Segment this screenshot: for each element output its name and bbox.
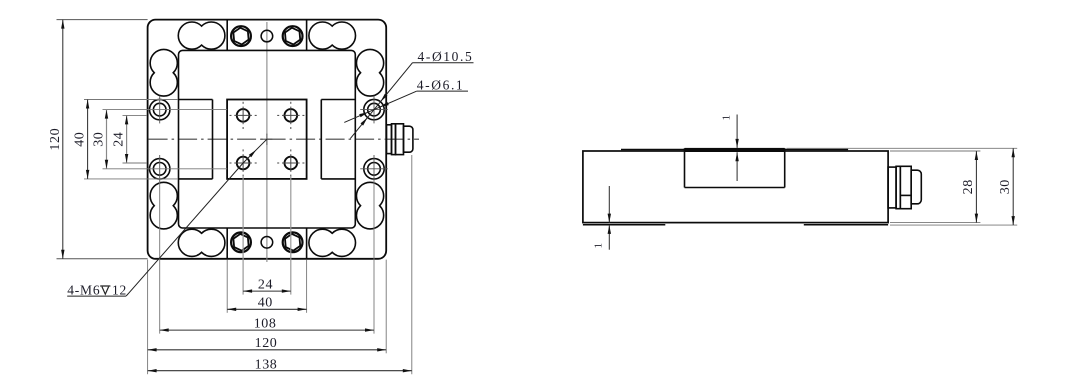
- M6 tapped hole bottom-right on platform: [277, 149, 304, 176]
- hex bolt top-right: [283, 26, 303, 46]
- pocket step edge lower-left: [179, 178, 213, 180]
- extension line 120 dim right: [385, 260, 387, 354]
- leader label 4-M6 depth 12: [67, 139, 267, 297]
- side view bottom pad right: [804, 224, 888, 226]
- pocket frame outline: [179, 50, 356, 228]
- extension line 24 dim left upper: [123, 114, 148, 116]
- peanut cutout left-bottom vertical: [150, 182, 177, 229]
- peanut cutout bottom-left: [178, 229, 225, 256]
- extension line 28 dim top: [890, 150, 980, 152]
- counterbored hole bottom-left: [150, 155, 170, 183]
- extension line 40 dim lower: [84, 178, 178, 180]
- svg-text:30: 30: [92, 132, 107, 147]
- side view boss left edge: [684, 148, 686, 187]
- peanut cutout right-top vertical: [356, 49, 383, 96]
- svg-text:4-M6: 4-M6: [67, 282, 100, 297]
- svg-text:24: 24: [112, 132, 127, 147]
- center cross mark: [261, 134, 272, 145]
- dimension 40 bottom: [227, 295, 306, 311]
- M6 tapped hole top-right on platform: [277, 102, 304, 129]
- slot edge right: [320, 100, 322, 179]
- bottom strip divider left: [226, 228, 228, 259]
- small hole bottom-center: [261, 237, 273, 249]
- extension line plate bottom-left: [57, 258, 148, 260]
- extension line 30 dim upper: [103, 109, 228, 111]
- dimension 40 left: [73, 100, 90, 179]
- dimension 30 left: [92, 110, 109, 169]
- svg-text:138: 138: [255, 358, 278, 373]
- dimension 138 bottom: [148, 358, 412, 373]
- leader label 4-D10.5: [350, 49, 473, 138]
- svg-text:24: 24: [258, 277, 273, 292]
- peanut cutout right-bottom vertical: [356, 182, 383, 229]
- side view boss right edge: [784, 148, 786, 187]
- extension line 24 dim bottom left: [242, 176, 244, 295]
- svg-text:1: 1: [721, 115, 733, 121]
- svg-text:120: 120: [255, 336, 278, 351]
- dimension 24 left: [112, 115, 129, 163]
- extension line 40 dim bottom left: [226, 260, 228, 313]
- svg-text:120: 120: [48, 128, 63, 151]
- svg-text:4-Ø6.1: 4-Ø6.1: [417, 77, 464, 92]
- extension line 30 dim bottom: [890, 224, 1017, 226]
- svg-text:12: 12: [112, 282, 127, 297]
- dimension 28 side: [961, 151, 978, 223]
- dimension 108 bottom: [160, 316, 374, 331]
- svg-text:30: 30: [998, 179, 1013, 194]
- side view boss bottom edge: [685, 187, 785, 189]
- slot edge left: [212, 100, 214, 179]
- dimension 1 top: [721, 115, 739, 182]
- peanut cutout bottom-right: [309, 229, 356, 256]
- front view plate outline: [148, 20, 387, 259]
- dimension 30 side: [998, 148, 1015, 225]
- M6 tapped hole top-left on platform: [230, 102, 257, 129]
- svg-text:40: 40: [73, 132, 88, 147]
- front view horizontal centerline: [149, 138, 419, 140]
- side view body: [583, 151, 888, 223]
- pocket step edge upper-right: [321, 99, 355, 101]
- side view boss platform top: [685, 148, 785, 152]
- front view cable connector: [387, 124, 413, 155]
- central square platform: [227, 100, 307, 179]
- extension line 30 dim top: [787, 147, 1018, 149]
- hex bolt top-left: [231, 26, 251, 46]
- svg-text:28: 28: [961, 179, 976, 194]
- leader label 4-D6.1: [344, 77, 468, 122]
- pocket step edge upper-left: [179, 99, 213, 101]
- small hole top-center: [261, 30, 273, 42]
- hex bolt bottom-right: [283, 232, 303, 252]
- top strip divider right: [306, 20, 308, 51]
- peanut cutout left-top vertical: [150, 49, 177, 96]
- extension line 30 dim lower: [103, 168, 228, 170]
- side view bottom pad left: [583, 224, 665, 226]
- dimension 120 left: [48, 20, 65, 259]
- extension line 138 dim right at connector tip: [411, 155, 413, 374]
- extension line 108 dim left: [159, 181, 161, 334]
- extension line 40 dim upper: [84, 99, 178, 101]
- svg-text:1: 1: [593, 243, 605, 249]
- pocket step edge lower-right: [321, 178, 355, 180]
- dimension 120 bottom: [148, 336, 387, 352]
- front view vertical centerline: [266, 22, 268, 135]
- counterbored hole top-right: [360, 96, 388, 124]
- dimension 1 bottom: [593, 186, 612, 250]
- extension line 24 dim bottom right: [290, 176, 292, 295]
- dimension 24 bottom: [243, 277, 291, 293]
- svg-text:40: 40: [258, 295, 273, 310]
- extension line 40 dim bottom right: [306, 260, 308, 313]
- top strip divider left: [226, 20, 228, 51]
- svg-text:4-Ø10.5: 4-Ø10.5: [418, 49, 474, 64]
- svg-text:108: 108: [254, 316, 277, 331]
- hex bolt bottom-left: [231, 232, 251, 252]
- extension line 108 dim right: [373, 181, 375, 334]
- bottom strip divider right: [306, 228, 308, 259]
- side view top pad line: [621, 149, 848, 151]
- M6 tapped hole bottom-left on platform: [230, 149, 257, 176]
- counterbored hole top-left: [150, 96, 170, 124]
- counterbored hole bottom-right: [360, 155, 388, 183]
- extension line 28 dim bottom: [890, 222, 980, 224]
- side view connector: [888, 166, 921, 208]
- extension line plate top-left: [57, 19, 148, 21]
- peanut cutout top-left: [178, 22, 225, 49]
- extension line 24 dim left lower: [123, 162, 148, 164]
- extension line 120 and 138 dim left: [147, 260, 149, 375]
- peanut cutout top-right: [309, 22, 356, 49]
